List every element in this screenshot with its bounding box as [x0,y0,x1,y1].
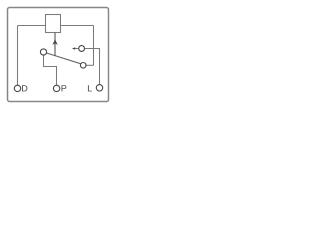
wiper stem to box [54,33,56,56]
label P [62,85,67,91]
wire pivot stem [44,55,57,85]
wire D riser [17,26,19,86]
arrow at upper contact [72,47,75,50]
wire box-right to right bus [61,25,94,27]
wire upper contact to L riser [75,48,100,50]
terminal P circle [53,85,59,91]
terminal D circle [14,85,20,91]
arrowhead up at box [52,39,57,45]
label L [88,85,92,91]
upper contact circle [79,46,85,52]
lower contact circle [80,63,86,69]
wire bus to lower contact [86,64,93,66]
border frame [8,8,109,102]
wire right bus down [93,26,95,66]
wire box-left to node D riser [18,25,46,27]
terminal L circle [96,85,102,91]
switch lever arm [46,53,81,64]
coil box B1 [46,15,61,33]
label D [22,85,27,91]
wire L riser down [99,49,101,85]
pivot circle [40,49,46,55]
